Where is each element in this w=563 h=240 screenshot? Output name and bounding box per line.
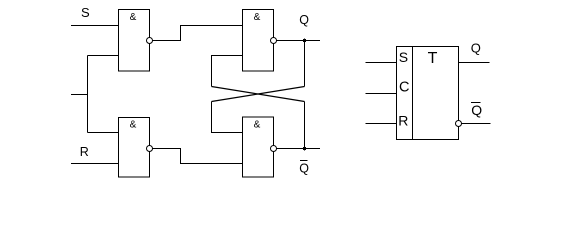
wire Q feedback vertical upper <box>304 41 306 87</box>
wire D4 output (Qbar) <box>277 148 321 150</box>
pin strip divider <box>412 47 414 140</box>
svg-text:T: T <box>428 50 438 67</box>
inversion bubble D4 <box>271 146 277 152</box>
wire D2 output (Q) <box>277 40 321 42</box>
nand gate D3 (bottom-left) <box>119 118 150 178</box>
wire S input to gate D1 <box>71 25 119 27</box>
inversion bubble Qbar output <box>456 121 462 127</box>
svg-text:R: R <box>398 113 408 129</box>
wire Q feedback diagonal <box>212 87 305 102</box>
wire D3 output to D4 input 2 <box>153 149 243 164</box>
flip-flop symbol T (right) <box>397 47 459 140</box>
svg-text:R: R <box>80 145 89 159</box>
wire C branch to D1 input 2 <box>88 55 119 57</box>
wire Q feedback vertical lower to D4 input 1 <box>212 102 243 133</box>
junction Qbar <box>303 147 307 151</box>
svg-text:Q: Q <box>299 161 309 175</box>
svg-text:&: & <box>130 12 137 23</box>
svg-text:S: S <box>81 5 90 20</box>
wire S input <box>366 62 397 64</box>
nand gate D4 (bottom-right) <box>243 117 274 177</box>
inversion bubble D3 <box>147 146 153 152</box>
wire C input <box>366 93 397 95</box>
wire Qbar feedback vertical <box>304 102 306 149</box>
junction Q <box>303 39 307 43</box>
nand gate D2 (top-right) <box>243 10 274 72</box>
inversion bubble D1 <box>147 38 153 44</box>
svg-text:&: & <box>254 119 261 130</box>
svg-text:Q: Q <box>471 41 481 56</box>
wire D1 output to D2 input 1 <box>153 26 243 41</box>
svg-text:Q: Q <box>299 13 309 27</box>
svg-text:&: & <box>130 119 137 130</box>
nand gate D1 (top-left) <box>119 10 150 72</box>
wire R input to gate D3 <box>71 163 119 165</box>
wire C branch vertical <box>87 56 89 133</box>
svg-text:&: & <box>254 12 261 23</box>
svg-text:S: S <box>399 49 408 65</box>
wire Q output <box>459 62 490 64</box>
wire C branch to D3 input 1 <box>88 132 119 134</box>
wire Qbar feedback to D2 input 2 <box>212 56 243 87</box>
inversion bubble D2 <box>271 38 277 44</box>
wire Qbar output <box>462 123 491 125</box>
wire C input stub <box>71 94 88 96</box>
svg-text:C: C <box>399 80 409 96</box>
wire R input <box>366 123 397 125</box>
wire Qbar feedback diagonal <box>212 87 305 102</box>
svg-text:Q: Q <box>471 102 482 118</box>
